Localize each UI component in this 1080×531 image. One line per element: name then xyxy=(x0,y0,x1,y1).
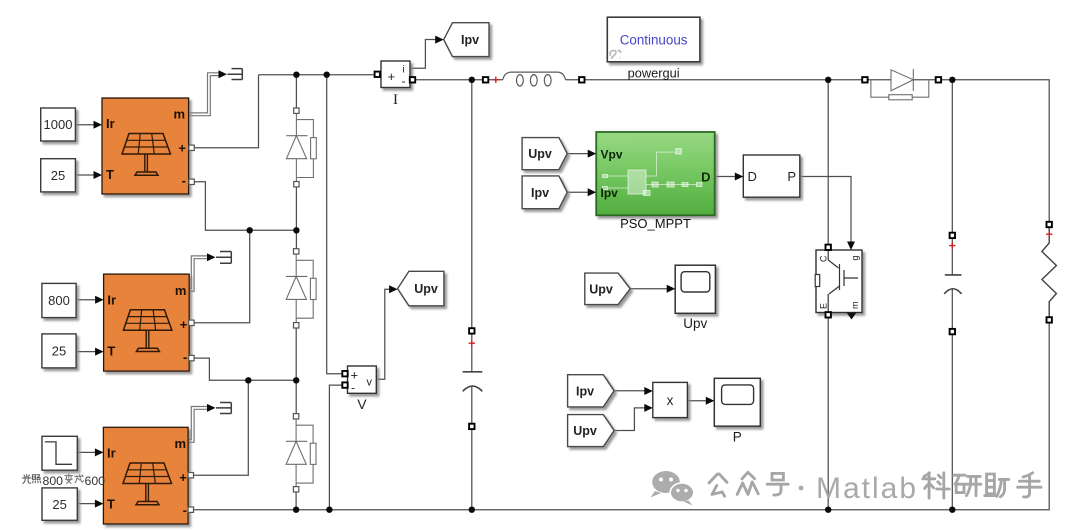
svg-text:x: x xyxy=(667,393,674,408)
svg-text:Upv: Upv xyxy=(414,282,438,296)
svg-text:T: T xyxy=(106,167,114,182)
svg-text:D: D xyxy=(748,169,757,184)
svg-text:+: + xyxy=(178,141,186,156)
svg-text:Ir: Ir xyxy=(106,116,115,131)
svg-text:Matlab: Matlab xyxy=(816,472,918,505)
svg-text:25: 25 xyxy=(52,497,66,512)
svg-text:V: V xyxy=(357,396,367,412)
svg-text:25: 25 xyxy=(51,168,65,183)
svg-text:1000: 1000 xyxy=(44,117,73,132)
svg-text:Upv: Upv xyxy=(573,424,597,438)
svg-text:-: - xyxy=(351,381,355,395)
svg-text:Vpv: Vpv xyxy=(601,147,623,161)
svg-text:P: P xyxy=(733,430,742,445)
svg-text:Upv: Upv xyxy=(528,147,552,161)
svg-text:v: v xyxy=(367,377,373,389)
svg-text:800: 800 xyxy=(43,474,64,488)
svg-text:Ipv: Ipv xyxy=(531,186,549,200)
svg-text:E: E xyxy=(819,303,829,309)
svg-text:I: I xyxy=(393,92,398,108)
svg-text:m: m xyxy=(173,107,185,122)
svg-text:D: D xyxy=(701,169,710,184)
svg-text:C: C xyxy=(819,255,829,262)
svg-text:g: g xyxy=(850,256,860,261)
svg-text:powergui: powergui xyxy=(628,65,680,80)
svg-text:Ipv: Ipv xyxy=(461,33,479,47)
svg-text:-: - xyxy=(402,74,406,88)
svg-text:25: 25 xyxy=(52,344,66,359)
svg-text:PSO_MPPT: PSO_MPPT xyxy=(620,216,691,231)
svg-text:Upv: Upv xyxy=(589,282,613,296)
svg-text:Continuous: Continuous xyxy=(620,32,688,47)
svg-text:m: m xyxy=(850,302,860,310)
svg-text:P: P xyxy=(787,169,796,184)
svg-text:600: 600 xyxy=(85,474,106,488)
svg-text:Ipv: Ipv xyxy=(576,384,594,398)
svg-text:800: 800 xyxy=(48,293,70,308)
svg-text:-: - xyxy=(182,173,186,188)
svg-text:+: + xyxy=(388,69,396,84)
svg-text:Ipv: Ipv xyxy=(601,186,619,200)
svg-text:Upv: Upv xyxy=(683,316,707,331)
